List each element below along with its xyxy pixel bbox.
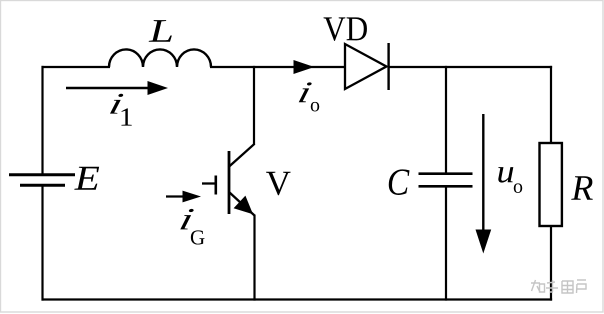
label L [149,20,172,42]
transistor V emitter arrowhead [234,196,253,215]
label E [74,167,99,190]
wire: top rail, left segment to inductor [42,66,111,68]
voltage arrow uo [476,114,492,254]
wire: left rail upper, to battery positive plate [41,66,43,174]
gate current arrow iG [166,191,201,203]
transistor V emitter wire [253,215,255,301]
label iG [180,209,204,245]
transistor V gate lead [202,182,216,184]
wire: top rail, inductor to diode anode [210,66,345,68]
label uo [498,167,522,193]
wire: left rail lower, battery to bottom rail [41,186,43,301]
transistor V gate bar [215,176,218,195]
label V [266,172,290,195]
wire: right rail lower, resistor to bottom rail [550,226,552,301]
battery E negative plate [20,184,65,187]
resistor R body [540,143,562,226]
current arrowhead io on top rail [294,60,315,74]
transistor V body bar [228,151,231,214]
wire: capacitor branch upper [445,66,447,173]
capacitor C top plate [419,172,473,175]
watermark zhihu [531,280,586,293]
wire: capacitor branch lower [445,188,447,301]
label io [299,82,320,111]
label i1 [110,94,132,126]
label R [571,176,593,200]
label VD [324,17,367,40]
battery E positive plate [9,173,75,176]
wire: right rail upper, to resistor [550,66,552,144]
transistor V collector diagonal [229,144,255,167]
diode VD triangle [345,44,387,89]
diode VD cathode bar [387,43,389,90]
wire: bottom rail [42,298,553,300]
transistor V emitter diagonal [229,192,255,216]
label C [389,169,410,195]
capacitor C bottom plate [419,185,473,188]
wire: top rail, diode cathode to top-right corner [389,66,552,68]
current arrow i1 [66,81,168,95]
inductor L [109,49,211,67]
transistor V collector wire [253,66,255,145]
